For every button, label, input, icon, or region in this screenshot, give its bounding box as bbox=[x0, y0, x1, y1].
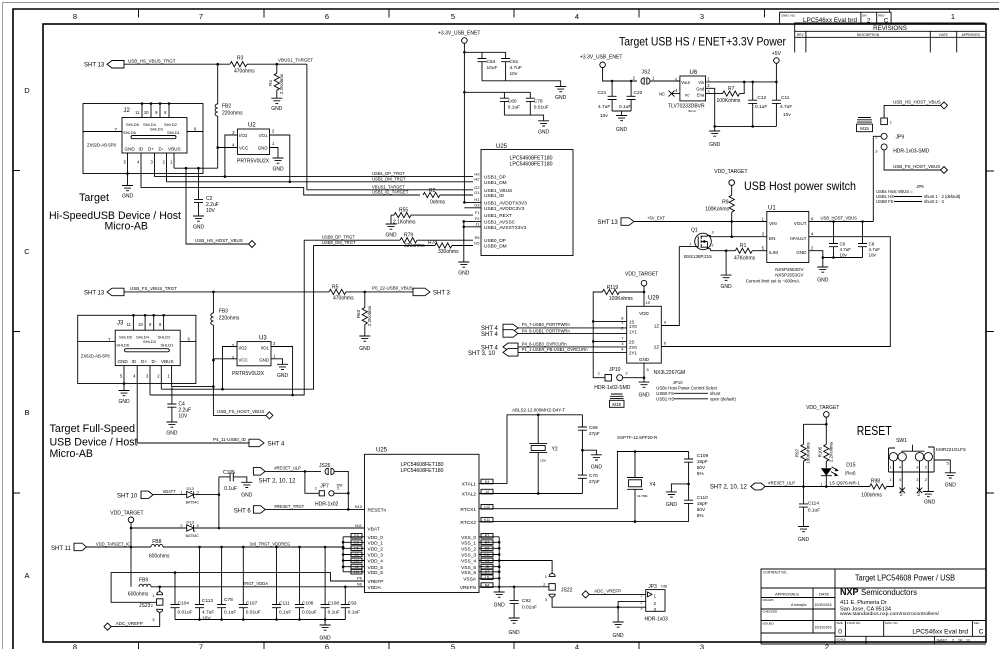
svg-text:0.01uF: 0.01uF bbox=[246, 609, 261, 615]
svg-text:2Y1: 2Y1 bbox=[629, 350, 637, 355]
svg-text:D13: D13 bbox=[187, 519, 195, 524]
svg-text:VBAT: VBAT bbox=[368, 526, 380, 532]
ground caps row bbox=[175, 618, 345, 641]
svg-text:C22: C22 bbox=[634, 90, 643, 96]
svg-text:VOUT: VOUT bbox=[794, 221, 807, 226]
svg-text:USB1 HS: USB1 HS bbox=[656, 396, 674, 401]
svg-text:R98: R98 bbox=[871, 478, 880, 484]
svg-text:Q1: Q1 bbox=[691, 228, 698, 234]
svg-text:USB0 FS: USB0 FS bbox=[656, 391, 674, 396]
svg-text:C: C bbox=[24, 247, 30, 256]
wire U25 AVDD stubs bbox=[464, 202, 481, 207]
capacitor C109 bbox=[684, 452, 708, 484]
capacitor C8 bbox=[858, 222, 880, 258]
svg-text:10: 10 bbox=[646, 300, 651, 305]
resistor R4 bbox=[268, 64, 284, 98]
revisions table bbox=[795, 23, 985, 53]
ground J2 shell bbox=[122, 174, 134, 200]
svg-text:SCALE: SCALE bbox=[837, 638, 846, 642]
svg-text:VDD_0: VDD_0 bbox=[368, 535, 384, 541]
wire U2 VCC bbox=[218, 147, 238, 149]
svg-text:18pF: 18pF bbox=[697, 501, 708, 507]
svg-text:0.01uF: 0.01uF bbox=[178, 609, 193, 615]
svg-text:ADC_VREFP: ADC_VREFP bbox=[594, 589, 621, 594]
svg-text:ZX62D-AB-5P8: ZX62D-AB-5P8 bbox=[87, 143, 117, 148]
svg-text:Current limit set to ~600mA.: Current limit set to ~600mA. bbox=[746, 279, 801, 284]
svg-text:VREFN: VREFN bbox=[460, 585, 477, 591]
header JP9 HDR-1x03-SMD bbox=[875, 118, 929, 154]
wire to USB_FS_HOST_VBUS bbox=[213, 387, 266, 416]
switch SW1 KMR221GLFS bbox=[889, 438, 966, 482]
svg-text:VDD_TARGET: VDD_TARGET bbox=[625, 272, 658, 278]
svg-text:I/O1: I/O1 bbox=[259, 133, 268, 138]
svg-text:USB0_DP: USB0_DP bbox=[484, 238, 506, 244]
svg-text:JS22: JS22 bbox=[561, 588, 573, 594]
svg-text:NX3L2267GM: NX3L2267GM bbox=[654, 370, 686, 376]
svg-text:SHLD6: SHLD6 bbox=[123, 130, 137, 135]
svg-text:GND: GND bbox=[272, 167, 284, 173]
svg-text:R7: R7 bbox=[728, 86, 735, 92]
svg-text:USB Device / Host: USB Device / Host bbox=[50, 437, 138, 449]
capacitor C106 bbox=[295, 547, 317, 620]
svg-text:Micro-AB: Micro-AB bbox=[50, 448, 94, 460]
svg-text:OF: OF bbox=[958, 639, 962, 643]
svg-text:C8: C8 bbox=[869, 242, 875, 247]
wire USB0_DP_TRGT bbox=[304, 239, 400, 241]
svg-text:VDDA: VDDA bbox=[368, 585, 382, 591]
junction U2 VCC bbox=[216, 146, 219, 149]
svg-text:C6: C6 bbox=[840, 242, 846, 247]
svg-text:11: 11 bbox=[135, 110, 140, 115]
section label Target Full-Speed bbox=[50, 423, 138, 460]
svg-text:100Kohms: 100Kohms bbox=[806, 441, 811, 463]
svg-text:GND: GND bbox=[945, 483, 957, 489]
svg-text:GND: GND bbox=[638, 393, 650, 399]
capacitor C11 bbox=[772, 82, 792, 127]
diode D13 (VDD to VBAT) bbox=[131, 519, 219, 537]
svg-text:50V: 50V bbox=[697, 507, 706, 513]
svg-text:DNI: DNI bbox=[661, 584, 667, 588]
svg-text:SHT 3: SHT 3 bbox=[433, 291, 451, 297]
svg-text:APPROVED: APPROVED bbox=[962, 33, 981, 37]
wire to USB_HS_HOST_VBUS bbox=[186, 168, 249, 244]
svg-text:C105: C105 bbox=[223, 470, 235, 476]
svg-text:6: 6 bbox=[325, 643, 329, 649]
svg-text:VDD_2: VDD_2 bbox=[368, 547, 384, 553]
svg-text:VBUS: VBUS bbox=[161, 359, 174, 364]
svg-text:REV: REV bbox=[974, 621, 980, 625]
svg-text:+5V_EXT: +5V_EXT bbox=[647, 216, 665, 221]
svg-text:EN: EN bbox=[769, 236, 775, 241]
ground U3 GND pin bbox=[271, 359, 288, 379]
capacitor C12 bbox=[748, 82, 767, 127]
wire JP9 pin2 to VOUT bbox=[873, 136, 881, 221]
capacitor C108 bbox=[321, 547, 340, 620]
svg-text:D5: D5 bbox=[474, 240, 480, 245]
junction FB3 / U3 VCC bbox=[212, 359, 215, 362]
regulator U6 TLV70233DBVR bbox=[668, 70, 710, 113]
header JP10 HDR-1x02-SMD bbox=[593, 367, 645, 391]
svg-text:Micro-AB: Micro-AB bbox=[105, 221, 149, 233]
svg-text:10v: 10v bbox=[840, 253, 848, 258]
svg-text:VDD_TARGET: VDD_TARGET bbox=[110, 511, 143, 517]
svg-text:2.2Kohms: 2.2Kohms bbox=[367, 305, 372, 326]
svg-text:USB1_DM_TRGT: USB1_DM_TRGT bbox=[372, 176, 406, 181]
svg-text:ZX62D-AB-5P8: ZX62D-AB-5P8 bbox=[81, 354, 111, 359]
wire U6 Vin to +5V bbox=[706, 81, 777, 83]
svg-text:I/O1: I/O1 bbox=[261, 346, 270, 351]
svg-text:6: 6 bbox=[325, 12, 329, 21]
svg-text:shunt 2 - 3: shunt 2 - 3 bbox=[924, 199, 944, 204]
svg-text:P4_6-USB0_OVRCURn: P4_6-USB0_OVRCURn bbox=[522, 341, 568, 346]
svg-text:GND: GND bbox=[118, 359, 129, 364]
wire U1 VOUT USB_HOST_VBUS bbox=[809, 221, 874, 223]
no-connect SW1 pin4 bbox=[899, 461, 905, 496]
connector J2 body ZX62D-AB-5P8 bbox=[83, 102, 203, 182]
svg-text:JP9: JP9 bbox=[916, 184, 924, 189]
svg-text:J3: J3 bbox=[117, 321, 124, 327]
resistor R98 bbox=[861, 461, 893, 498]
svg-text:C92: C92 bbox=[522, 598, 531, 604]
capacitor C110 bbox=[684, 484, 708, 522]
crystal Y4 SSPTF bbox=[617, 435, 658, 523]
svg-text:RESET: RESET bbox=[857, 424, 892, 438]
svg-text:USBx Host Power Control Select: USBx Host Power Control Select bbox=[656, 385, 718, 390]
svg-text:GND: GND bbox=[458, 271, 470, 277]
svg-text:GND: GND bbox=[616, 127, 628, 133]
wire VSS_4 to JS22 bbox=[499, 561, 552, 574]
svg-text:SHLD3: SHLD3 bbox=[150, 127, 164, 132]
svg-text:VCC: VCC bbox=[239, 146, 248, 151]
svg-text:10v: 10v bbox=[600, 113, 608, 119]
svg-text:10: 10 bbox=[144, 110, 149, 115]
svg-text:REV: REV bbox=[797, 33, 805, 37]
pin codes VSS boxed bbox=[481, 534, 493, 588]
svg-text:SHLD1: SHLD1 bbox=[161, 343, 175, 348]
svg-text:U3: U3 bbox=[259, 336, 267, 342]
svg-text:FB8: FB8 bbox=[152, 539, 161, 545]
svg-text:5: 5 bbox=[451, 643, 455, 649]
svg-text:JP7: JP7 bbox=[320, 484, 329, 490]
svg-text:TLV70233DBVR: TLV70233DBVR bbox=[668, 104, 705, 110]
svg-text:JS23: JS23 bbox=[139, 603, 151, 609]
svg-text:USB_HOST_VBUS: USB_HOST_VBUS bbox=[821, 215, 858, 220]
column tick top 8/7 bbox=[139, 9, 890, 18]
wire U1 EN bbox=[711, 236, 767, 238]
svg-text:GND: GND bbox=[277, 373, 289, 379]
resistor R78 bbox=[428, 240, 473, 255]
capacitor C79 bbox=[526, 92, 549, 115]
ground JP3 pin2 bbox=[613, 622, 625, 639]
svg-text:TRGT_VDDA: TRGT_VDDA bbox=[243, 581, 269, 586]
svg-text:USB Host power switch: USB Host power switch bbox=[744, 179, 856, 193]
jumper JS23 bbox=[139, 587, 163, 627]
MOSFET Q1 BSS138P bbox=[684, 228, 714, 260]
capacitor C105 bbox=[219, 470, 247, 492]
svg-text:C106: C106 bbox=[302, 600, 314, 606]
title block bbox=[761, 569, 986, 644]
wire Q1 gate to U29 riser bbox=[679, 246, 693, 248]
wire U2 I/O1 to DM bbox=[270, 135, 290, 182]
svg-text:USB0_DM_TRGT: USB0_DM_TRGT bbox=[322, 240, 356, 245]
svg-text:SH: SH bbox=[862, 13, 866, 17]
svg-text:P4_11-USB0_ID: P4_11-USB0_ID bbox=[213, 437, 247, 442]
svg-text:VDD: VDD bbox=[639, 311, 649, 316]
svg-text:10: 10 bbox=[138, 322, 143, 327]
node ADC_VREFP (left) bbox=[104, 621, 160, 630]
svg-text:M15: M15 bbox=[860, 126, 869, 131]
svg-text:GND: GND bbox=[721, 284, 733, 290]
svg-text:APPROVALS: APPROVALS bbox=[775, 592, 799, 597]
resistor R2 0ohms bbox=[423, 188, 473, 206]
svg-text:2: 2 bbox=[712, 244, 714, 248]
svg-text:3v3_TRGT_VDDREG: 3v3_TRGT_VDDREG bbox=[250, 541, 291, 546]
svg-text:10V: 10V bbox=[206, 208, 216, 214]
svg-text:Vin: Vin bbox=[698, 80, 705, 85]
jumper JS22 bbox=[543, 573, 618, 607]
svg-text:600ohms: 600ohms bbox=[128, 592, 149, 598]
svg-text:GND: GND bbox=[258, 146, 268, 151]
sheet port SHT 13 USB_FS_VBUS_TRGT bbox=[84, 286, 177, 296]
power +3.3V_USB_ENET (2) bbox=[580, 55, 622, 68]
svg-text:SHLD5: SHLD5 bbox=[119, 335, 133, 340]
svg-text:10/30/2016: 10/30/2016 bbox=[815, 603, 832, 607]
svg-text:USB1_ID: USB1_ID bbox=[484, 193, 505, 199]
capacitor C78 bbox=[217, 547, 236, 620]
capacitor C6 bbox=[829, 222, 851, 258]
svg-text:27pF: 27pF bbox=[589, 431, 600, 437]
svg-text:GND: GND bbox=[555, 95, 567, 101]
svg-text:RESETn: RESETn bbox=[368, 507, 387, 513]
capacitor C64 bbox=[464, 52, 505, 81]
svg-text:G1: G1 bbox=[474, 190, 480, 195]
wire 3v3_TRGT_VDDREG bbox=[163, 546, 343, 548]
resistor R1 bbox=[726, 243, 767, 261]
svg-text:SHT 13: SHT 13 bbox=[598, 220, 619, 226]
svg-text:ABLS2-12.000MHZ-D4Y-T: ABLS2-12.000MHZ-D4Y-T bbox=[512, 407, 565, 412]
svg-text:ISSUED: ISSUED bbox=[763, 622, 775, 626]
svg-text:#RESET_ULP: #RESET_ULP bbox=[768, 481, 795, 486]
svg-text:P4_7-USB0_PORTPWRn: P4_7-USB0_PORTPWRn bbox=[522, 322, 571, 327]
no-connect U6 nc pin bbox=[659, 91, 680, 97]
svg-text:R5: R5 bbox=[332, 284, 339, 290]
svg-text:8: 8 bbox=[73, 643, 77, 649]
svg-text:Ena: Ena bbox=[697, 92, 705, 97]
svg-text:KMR221GLFS: KMR221GLFS bbox=[936, 447, 966, 452]
svg-text:0ohms: 0ohms bbox=[430, 200, 446, 206]
svg-text:USB_HS_HOST_VBUS: USB_HS_HOST_VBUS bbox=[195, 238, 243, 243]
TVS U2 PRTR5V0U2X bbox=[232, 123, 275, 165]
svg-text:SHT 10: SHT 10 bbox=[117, 494, 138, 500]
svg-text:R55: R55 bbox=[399, 208, 408, 214]
ferrite bead FB3 bbox=[211, 292, 240, 387]
svg-text:JP9: JP9 bbox=[896, 134, 905, 140]
ground below C4 bbox=[166, 422, 178, 437]
svg-text:NX5P2553GV: NX5P2553GV bbox=[775, 267, 803, 272]
test point M19 bbox=[610, 394, 625, 407]
svg-text:DATE: DATE bbox=[819, 592, 830, 597]
header JP7 DNI bbox=[305, 471, 350, 507]
ground C64/C61 bbox=[482, 81, 567, 101]
svg-text:ID: ID bbox=[139, 147, 144, 152]
wire USB0 D+ bbox=[150, 240, 304, 395]
svg-text:USB_HS_VBUS_TRGT: USB_HS_VBUS_TRGT bbox=[128, 59, 176, 64]
svg-text:100ohms: 100ohms bbox=[861, 492, 882, 498]
svg-text:Target: Target bbox=[79, 192, 109, 204]
svg-text:GND: GND bbox=[494, 603, 506, 609]
wire SW1 pin1 bbox=[892, 461, 894, 487]
wire RTCX2 bbox=[479, 521, 689, 523]
svg-text:0.1uF: 0.1uF bbox=[808, 507, 820, 513]
svg-text:2.1Kohms: 2.1Kohms bbox=[393, 220, 416, 226]
power +3.3V_USB_ENET bbox=[438, 31, 480, 44]
svg-text:VBUS: VBUS bbox=[168, 147, 181, 152]
svg-text:GND: GND bbox=[118, 399, 130, 405]
svg-text:USB1_REXT: USB1_REXT bbox=[484, 213, 512, 219]
capacitor C4 bbox=[167, 387, 191, 422]
svg-text:JP3: JP3 bbox=[648, 584, 657, 590]
svg-text:GND: GND bbox=[259, 358, 269, 363]
svg-text:SHLD2: SHLD2 bbox=[158, 335, 172, 340]
ferrite bead FB8 bbox=[149, 539, 170, 559]
svg-text:4: 4 bbox=[575, 643, 579, 649]
svg-text:#RESET_TRGT: #RESET_TRGT bbox=[274, 504, 304, 509]
svg-text:10v: 10v bbox=[510, 71, 518, 77]
svg-text:5%: 5% bbox=[697, 513, 705, 519]
svg-text:ID: ID bbox=[132, 359, 137, 364]
resistor R119 bbox=[593, 285, 644, 374]
svg-text:DWG. NO.: DWG. NO. bbox=[885, 621, 899, 625]
svg-text:USB1_DM: USB1_DM bbox=[484, 180, 507, 186]
svg-text:J2: J2 bbox=[124, 108, 131, 114]
svg-text:7: 7 bbox=[199, 12, 203, 21]
wire J2 VBUS row bbox=[174, 167, 218, 169]
svg-text:VSS_0: VSS_0 bbox=[461, 535, 476, 541]
svg-text:VDD_6: VDD_6 bbox=[368, 570, 384, 576]
ground U1 GND / C6 C8 bbox=[809, 251, 863, 284]
svg-text:10V: 10V bbox=[178, 414, 188, 420]
svg-text:10V: 10V bbox=[202, 616, 211, 622]
svg-text:VREFP: VREFP bbox=[368, 579, 384, 585]
ground Q1/R1 bbox=[721, 251, 733, 290]
capacitor C69 bbox=[578, 415, 600, 450]
svg-text:VDD_TARGET_IC: VDD_TARGET_IC bbox=[96, 541, 130, 546]
svg-text:C78: C78 bbox=[224, 597, 233, 603]
svg-text:LPC546xx Eval brd: LPC546xx Eval brd bbox=[912, 629, 968, 636]
svg-text:RTCX1: RTCX1 bbox=[460, 507, 476, 513]
wire #RESET_ULP bbox=[265, 470, 321, 472]
svg-text:10v: 10v bbox=[783, 112, 791, 118]
wire USB1_DP_TRGT bbox=[154, 174, 156, 177]
svg-text:VCC: VCC bbox=[239, 358, 248, 363]
wire U29 1S / 2S to R119 rail bbox=[593, 321, 627, 341]
svg-text:ADC_VREFP: ADC_VREFP bbox=[116, 621, 143, 626]
svg-text:470ohms: 470ohms bbox=[333, 295, 354, 301]
capacitor C107 bbox=[239, 547, 261, 620]
svg-text:U6: U6 bbox=[690, 70, 698, 76]
wire Q1 gate to U29 1Z bbox=[661, 247, 679, 326]
svg-text:USB1_AVSSTX3V3: USB1_AVSSTX3V3 bbox=[484, 225, 527, 231]
wire RTCX1 bbox=[479, 452, 689, 509]
junction FB3 top bbox=[212, 291, 215, 294]
ground SW1 pin2 bbox=[923, 461, 936, 506]
svg-text:CHECKED: CHECKED bbox=[763, 610, 779, 614]
svg-text:2.2Kohms: 2.2Kohms bbox=[279, 73, 284, 94]
svg-text:4.7uF: 4.7uF bbox=[869, 247, 881, 252]
svg-text:SHLD2: SHLD2 bbox=[164, 122, 178, 127]
capacitor C61 bbox=[501, 52, 522, 81]
svg-text:E6: E6 bbox=[354, 534, 358, 538]
svg-text:27pF: 27pF bbox=[589, 479, 600, 485]
svg-text:11: 11 bbox=[127, 322, 132, 327]
ground below R63 bbox=[359, 336, 371, 352]
sheet port SHT 13 USB_HS_VBUS_TRGT bbox=[84, 59, 176, 69]
svg-text:C11: C11 bbox=[781, 95, 790, 101]
svg-text:XTAL1: XTAL1 bbox=[462, 482, 477, 488]
ground J3 shell bbox=[118, 384, 130, 406]
svg-text:P4_9-USB1_PORTPWRn: P4_9-USB1_PORTPWRn bbox=[522, 328, 571, 333]
node ADC_VREFP (right) bbox=[582, 589, 646, 598]
connector J3 body ZX62D-AB-5P8 bbox=[78, 314, 196, 443]
svg-text:SHT 4: SHT 4 bbox=[268, 442, 286, 448]
svg-text:B: B bbox=[24, 408, 29, 417]
ground SW1 case pin5 bbox=[934, 460, 956, 489]
svg-text:GND: GND bbox=[359, 346, 371, 352]
svg-text:Target USB HS / ENET+3.3V Powe: Target USB HS / ENET+3.3V Power bbox=[619, 35, 786, 49]
svg-text:330ohms: 330ohms bbox=[438, 249, 459, 255]
solder jumper JS2 bbox=[633, 70, 680, 85]
capacitor C2 bbox=[194, 168, 219, 216]
svg-text:4.7uF: 4.7uF bbox=[510, 65, 522, 71]
svg-text:R119: R119 bbox=[607, 285, 619, 291]
svg-text:1: 1 bbox=[180, 491, 182, 495]
ground R55 bbox=[385, 215, 397, 238]
ferrite bead FB2 bbox=[215, 64, 243, 147]
svg-text:R105: R105 bbox=[817, 446, 822, 457]
svg-text:U25: U25 bbox=[496, 144, 508, 150]
svg-text:U25: U25 bbox=[376, 447, 388, 453]
svg-text:SHLD5: SHLD5 bbox=[126, 122, 140, 127]
pin codes XTAL boxed bbox=[481, 479, 493, 522]
svg-text:50V: 50V bbox=[697, 465, 706, 471]
svg-text:D13: D13 bbox=[187, 486, 195, 491]
ferrite bead FB9 bbox=[128, 577, 151, 597]
ground C21/C22 bbox=[612, 111, 631, 133]
capacitor C93 bbox=[341, 587, 360, 620]
svg-text:JP10: JP10 bbox=[609, 367, 621, 373]
svg-text:VDD_4: VDD_4 bbox=[368, 559, 384, 565]
svg-text:3: 3 bbox=[700, 643, 704, 649]
svg-text:D+: D+ bbox=[141, 359, 147, 364]
wire U29 GND pin bbox=[643, 363, 645, 382]
sheet port SHT 4 P4_6-USB0_OVRCURn bbox=[481, 341, 627, 351]
sheet port SHT 11 VDD_TARGET_IC bbox=[51, 541, 130, 552]
svg-text:FSCM NO.: FSCM NO. bbox=[847, 621, 861, 625]
ground U25 AVSS bbox=[458, 262, 470, 277]
svg-text:C109: C109 bbox=[697, 453, 709, 459]
svg-text:C93: C93 bbox=[348, 600, 357, 606]
svg-text:VSS_2: VSS_2 bbox=[461, 547, 476, 553]
svg-text:C110: C110 bbox=[697, 495, 708, 501]
ground C105 bbox=[241, 482, 253, 498]
wire JP9 pin1 to USB_HS_HOST_VBUS bbox=[884, 105, 940, 118]
ground C60/C79 bbox=[504, 115, 549, 135]
junction J2 pin5 shield bbox=[126, 172, 129, 175]
svg-text:SHT 2, 10, 12: SHT 2, 10, 12 bbox=[710, 485, 748, 491]
svg-text:U1: U1 bbox=[768, 206, 776, 212]
resistor R5 bbox=[329, 284, 413, 301]
power +5V bbox=[772, 51, 782, 82]
